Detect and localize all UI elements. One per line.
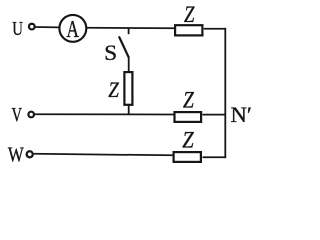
impedance Z mid box (175, 112, 202, 122)
svg-text:N′: N′ (231, 102, 252, 127)
svg-text:V: V (12, 105, 23, 126)
terminal U (29, 24, 35, 30)
impedance Z top box (175, 25, 202, 35)
wire series impedance to V line (128, 106, 130, 115)
junction stub for switch branch (128, 28, 130, 34)
svg-text:W: W (8, 143, 24, 166)
wire U-terminal to ammeter (35, 26, 60, 28)
wire top impedance to bus (204, 28, 226, 30)
switch S blade (119, 36, 129, 57)
svg-text:Z: Z (108, 77, 119, 102)
svg-text:Z: Z (182, 128, 194, 153)
wire switch to series impedance (128, 57, 130, 72)
wire mid impedance to bus (203, 114, 227, 116)
impedance Z series box (124, 72, 132, 105)
impedance Z bottom box (174, 152, 201, 162)
svg-text:S: S (104, 41, 117, 65)
terminal V (28, 112, 34, 118)
wire bottom impedance to bus (203, 156, 227, 158)
right bus (neutral N') (224, 28, 226, 158)
svg-text:Z: Z (184, 2, 195, 27)
svg-text:Z: Z (183, 88, 194, 113)
wire W line (34, 154, 173, 156)
wire U ammeter to top impedance (87, 27, 175, 29)
svg-text:U: U (12, 18, 23, 40)
svg-text:A: A (66, 16, 79, 43)
ammeter A1 (59, 15, 86, 43)
wire V line (35, 113, 174, 115)
terminal W (27, 151, 33, 157)
